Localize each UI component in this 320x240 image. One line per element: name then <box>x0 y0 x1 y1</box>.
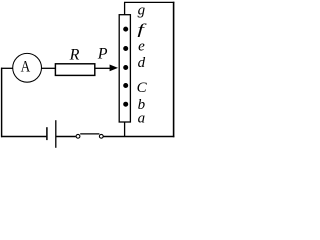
contact dot d <box>123 65 128 70</box>
battery positive plate (long) <box>55 120 57 148</box>
svg-text:d: d <box>138 55 146 71</box>
resistor R box <box>55 64 94 76</box>
contact dot b <box>123 102 128 107</box>
svg-text:R: R <box>69 46 80 63</box>
wire strip bottom stub <box>124 122 126 137</box>
wire strip top stub <box>124 2 126 14</box>
wire right vertical <box>173 2 175 137</box>
tap strip box <box>119 15 130 122</box>
svg-text:e: e <box>138 38 145 54</box>
switch blade <box>80 133 99 135</box>
switch terminal circle right <box>99 134 103 138</box>
svg-text:C: C <box>137 80 148 96</box>
svg-text:P: P <box>97 46 108 63</box>
wire switch to bottom right <box>103 136 174 138</box>
svg-text:A: A <box>21 59 31 76</box>
switch terminal circle left <box>76 134 80 138</box>
wire top horizontal <box>124 1 174 3</box>
contact dot f <box>123 27 128 32</box>
svg-text:g: g <box>138 2 146 18</box>
wire battery to switch <box>56 136 76 138</box>
contact dot C <box>123 83 128 88</box>
wire bottom left to battery <box>1 136 46 138</box>
wire resistor to wiper arrow <box>95 67 111 69</box>
ammeter A1 circle <box>13 53 42 82</box>
wire left horizontal to ammeter <box>1 67 13 69</box>
wiper arrow P head <box>110 65 118 72</box>
contact dot e <box>123 46 128 51</box>
svg-text:a: a <box>138 111 146 127</box>
wire left vertical <box>1 68 3 138</box>
wire ammeter to resistor <box>42 67 56 69</box>
battery negative plate (short) <box>46 127 48 140</box>
